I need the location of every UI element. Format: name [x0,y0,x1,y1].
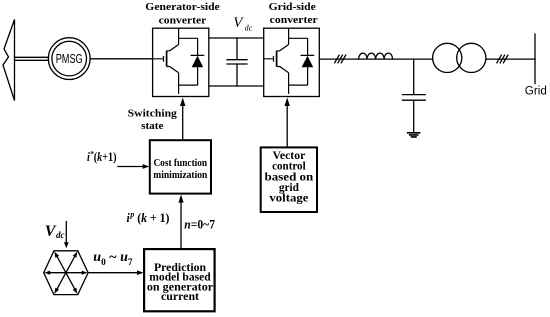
svg-text:PMSG: PMSG [56,51,83,66]
svg-text:converter: converter [159,14,207,26]
svg-text:state: state [141,120,164,132]
svg-text:Grid: Grid [525,86,547,98]
svg-text:minimization: minimization [153,170,207,181]
svg-text:Generator-side: Generator-side [145,1,220,13]
svg-text:dc: dc [245,23,253,32]
svg-text:current: current [161,291,199,303]
svg-text:Switching: Switching [128,107,178,119]
svg-text:n=0~7: n=0~7 [184,218,215,232]
svg-text:dc: dc [56,230,65,240]
svg-text:Grid-side: Grid-side [269,1,316,13]
svg-text:V: V [45,223,57,240]
svg-text:voltage: voltage [269,193,308,205]
svg-text:Cost function: Cost function [153,158,207,169]
svg-text:converter: converter [270,14,318,26]
